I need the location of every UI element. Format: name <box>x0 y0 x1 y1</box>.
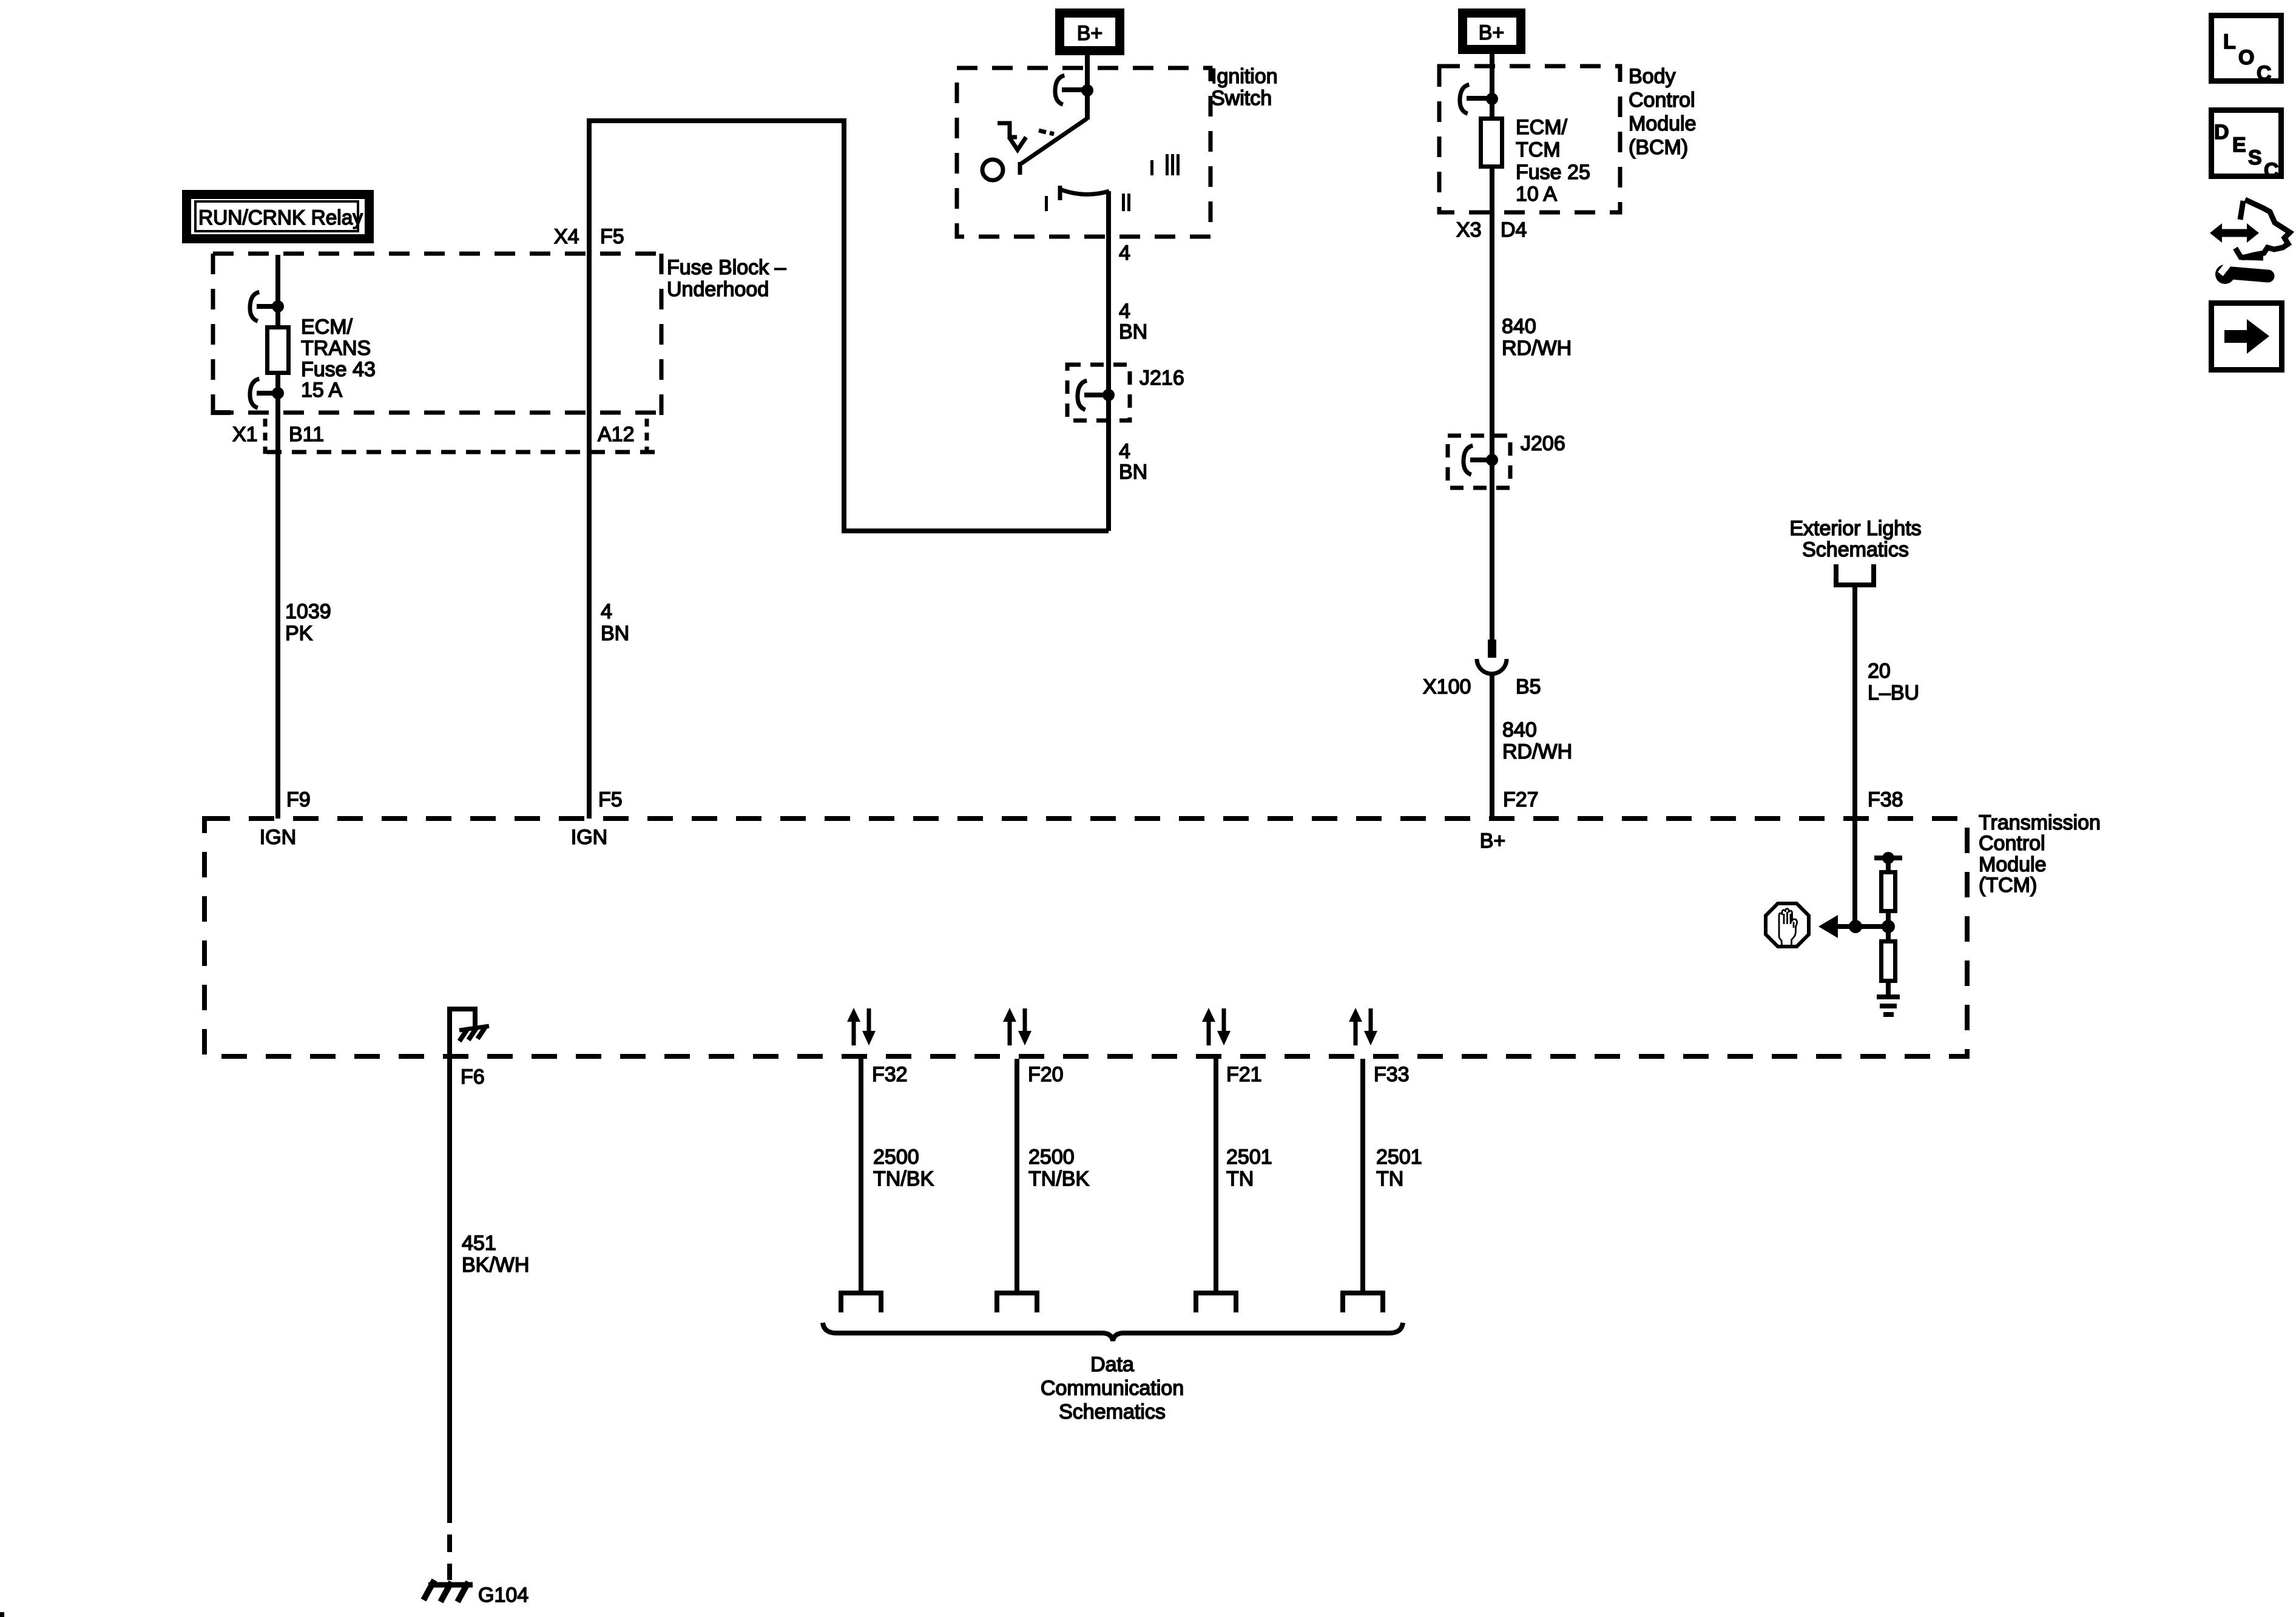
pull-up network top tick <box>1874 856 1902 860</box>
serial data wire F33 <box>1343 1008 1422 1312</box>
wire B+ to ignition contact <box>1085 55 1090 120</box>
node junction dot (wire F38) <box>1849 920 1862 933</box>
svg-text:Schematics: Schematics <box>1802 538 1909 561</box>
svg-text:B+: B+ <box>1077 22 1103 45</box>
svg-text:L–BU: L–BU <box>1868 681 1919 704</box>
node junction dot (between R1 R2) <box>1882 920 1895 933</box>
svg-text:Body: Body <box>1629 65 1676 88</box>
stop hand octagon icon <box>1766 903 1809 947</box>
resistor R1 <box>1882 873 1896 911</box>
svg-text:TN/BK: TN/BK <box>873 1167 934 1190</box>
svg-text:BN: BN <box>601 622 629 645</box>
wire loop fuse block to ignition switch <box>589 121 1109 531</box>
svg-text:A12: A12 <box>598 423 635 446</box>
terminal at J216 <box>1077 380 1115 410</box>
svg-text:E: E <box>2232 133 2246 157</box>
ignition key glyph <box>998 123 1054 150</box>
brace for data communication schematics <box>823 1323 1403 1341</box>
svg-text:BN: BN <box>1119 320 1147 343</box>
wire 4 BN from ignition II down <box>1106 191 1111 531</box>
svg-text:G104: G104 <box>478 1584 528 1607</box>
icon box forward arrow <box>2212 303 2282 370</box>
svg-text:RD/WH: RD/WH <box>1502 337 1572 360</box>
terminal at ignition B+ contact <box>1055 75 1093 105</box>
terminal above fuse 43 <box>249 292 284 322</box>
svg-text:Underhood: Underhood <box>667 278 769 301</box>
svg-text:F6: F6 <box>461 1065 485 1089</box>
splice J216 dashed box <box>1067 365 1130 420</box>
icon body repair / adjust <box>2210 200 2290 284</box>
svg-text:B11: B11 <box>289 423 324 446</box>
power symbol B+ (ignition) <box>1060 13 1120 51</box>
resistor R2 <box>1882 942 1896 981</box>
svg-text:L: L <box>2223 30 2236 53</box>
svg-text:IGN: IGN <box>571 826 607 849</box>
wire B+ to BCM fuse <box>1490 54 1494 642</box>
svg-text:2500: 2500 <box>873 1146 919 1169</box>
svg-text:840: 840 <box>1502 718 1537 741</box>
svg-text:2501: 2501 <box>1376 1146 1422 1169</box>
svg-text:TN/BK: TN/BK <box>1028 1167 1089 1190</box>
svg-text:F33: F33 <box>1374 1063 1410 1086</box>
svg-text:Control: Control <box>1629 89 1695 112</box>
svg-text:F5: F5 <box>598 788 623 811</box>
svg-text:Module: Module <box>1979 853 2047 876</box>
signal ground (TCM internal) <box>1877 994 1900 1017</box>
svg-text:TN: TN <box>1376 1167 1403 1190</box>
wire F5 vertical <box>587 118 592 819</box>
svg-text:BK/WH: BK/WH <box>462 1254 529 1277</box>
arrowhead toward stop icon <box>1818 915 1838 938</box>
svg-text:BN: BN <box>1119 461 1147 484</box>
svg-text:F9: F9 <box>286 788 311 811</box>
wire 451 BK/WH <box>447 1007 452 1505</box>
fuse F43 (ECM/TRANS Fuse 43 15 A) <box>268 328 289 373</box>
off-page bracket (exterior lights) <box>1836 564 1874 585</box>
svg-text:Control: Control <box>1979 832 2045 855</box>
svg-text:TN: TN <box>1226 1167 1254 1190</box>
svg-text:ECM/: ECM/ <box>301 316 353 339</box>
svg-text:4: 4 <box>1119 300 1130 323</box>
svg-text:TRANS: TRANS <box>301 337 371 360</box>
svg-text:F32: F32 <box>872 1063 908 1086</box>
svg-text:D: D <box>2214 121 2229 144</box>
svg-text:B5: B5 <box>1516 675 1541 698</box>
svg-text:840: 840 <box>1502 315 1536 338</box>
svg-text:Exterior Lights: Exterior Lights <box>1789 517 1921 540</box>
position mark I <box>1045 196 1048 211</box>
svg-text:Ignition: Ignition <box>1211 65 1278 88</box>
power symbol B+ (BCM) <box>1463 13 1521 50</box>
svg-text:2501: 2501 <box>1226 1146 1272 1169</box>
position mark II <box>1122 194 1125 211</box>
terminal at J206 <box>1463 445 1498 475</box>
svg-text:4: 4 <box>1119 241 1130 265</box>
svg-text:Communication: Communication <box>1041 1377 1184 1400</box>
splice J206 dashed box <box>1448 436 1510 488</box>
svg-text:X4: X4 <box>554 225 579 248</box>
svg-text:Transmission: Transmission <box>1979 811 2101 834</box>
svg-text:4: 4 <box>1119 440 1130 463</box>
scan artifact dot bottom-left <box>0 1612 4 1617</box>
relay RUN/CRNK Relay label box <box>187 195 370 239</box>
chassis ground symbol (TCM) <box>459 1026 489 1041</box>
svg-text:Module: Module <box>1629 112 1697 135</box>
ignition contact arc II <box>1060 189 1109 194</box>
svg-text:451: 451 <box>462 1232 496 1255</box>
svg-text:F20: F20 <box>1028 1063 1064 1086</box>
wire below X100 <box>1490 674 1494 817</box>
ignition switch pivot circle <box>982 160 1003 180</box>
serial data wire F21 <box>1196 1008 1272 1312</box>
connector X100 male stub <box>1488 640 1496 658</box>
wire B11 vertical (fuse 43 branch) <box>275 255 280 819</box>
fuse F25 (ECM/TCM Fuse 25 10 A) <box>1481 119 1502 167</box>
svg-text:2500: 2500 <box>1028 1146 1075 1169</box>
svg-text:10 A: 10 A <box>1516 183 1557 206</box>
svg-text:C: C <box>2264 159 2279 182</box>
connector X100 socket arc <box>1477 659 1507 674</box>
fuse block underhood dashed box <box>213 254 661 454</box>
svg-text:IGN: IGN <box>260 826 296 849</box>
BCM dashed box <box>1439 66 1620 212</box>
position mark III <box>1150 160 1153 175</box>
serial data wire F32 <box>841 1008 934 1312</box>
svg-text:20: 20 <box>1868 660 1891 683</box>
svg-text:Switch: Switch <box>1211 87 1272 110</box>
svg-text:F21: F21 <box>1226 1063 1262 1086</box>
ignition switch dashed box <box>957 68 1210 237</box>
svg-text:(TCM): (TCM) <box>1979 874 2037 897</box>
ground G104 symbol <box>424 1580 473 1602</box>
terminal at BCM B+ <box>1459 84 1498 114</box>
svg-text:X1: X1 <box>232 423 258 446</box>
ground branch inside TCM (F6) <box>450 1009 475 1028</box>
svg-text:4: 4 <box>601 600 612 623</box>
svg-text:B+: B+ <box>1479 21 1505 44</box>
svg-text:X3: X3 <box>1456 218 1482 241</box>
svg-text:F38: F38 <box>1868 788 1903 811</box>
svg-text:O: O <box>2238 46 2254 69</box>
svg-text:B+: B+ <box>1480 829 1506 852</box>
svg-text:TCM: TCM <box>1516 138 1561 161</box>
svg-text:X100: X100 <box>1423 675 1471 698</box>
svg-text:ECM/: ECM/ <box>1516 116 1568 139</box>
terminal below fuse 43 <box>249 379 284 408</box>
icon box DESC <box>2212 110 2281 183</box>
svg-text:RUN/CRNK Relay: RUN/CRNK Relay <box>198 206 363 229</box>
ignition switch movable arm <box>1020 118 1087 164</box>
svg-text:Fuse 43: Fuse 43 <box>301 358 376 381</box>
node at top of R1 <box>1882 852 1894 864</box>
wire 20 L-BU <box>1852 585 1857 927</box>
svg-text:J206: J206 <box>1521 432 1565 455</box>
svg-text:D4: D4 <box>1501 218 1527 241</box>
svg-text:Schematics: Schematics <box>1059 1400 1166 1423</box>
svg-text:C: C <box>2257 62 2272 85</box>
svg-text:S: S <box>2248 146 2262 169</box>
node line to stop lamp signal <box>1837 924 1888 929</box>
svg-text:PK: PK <box>285 622 313 645</box>
icon box LOC <box>2212 16 2281 86</box>
svg-text:Data: Data <box>1090 1353 1134 1376</box>
svg-text:J216: J216 <box>1140 366 1184 390</box>
svg-text:15 A: 15 A <box>301 379 342 402</box>
svg-text:(BCM): (BCM) <box>1629 136 1688 159</box>
TCM dashed box <box>204 819 1967 1056</box>
serial data wire F20 <box>997 1008 1089 1312</box>
svg-text:Fuse 25: Fuse 25 <box>1516 161 1590 184</box>
svg-text:F5: F5 <box>600 225 624 248</box>
svg-text:1039: 1039 <box>285 600 331 623</box>
svg-text:RD/WH: RD/WH <box>1502 740 1572 763</box>
svg-text:Fuse Block –: Fuse Block – <box>667 256 786 279</box>
svg-text:F27: F27 <box>1503 788 1539 811</box>
